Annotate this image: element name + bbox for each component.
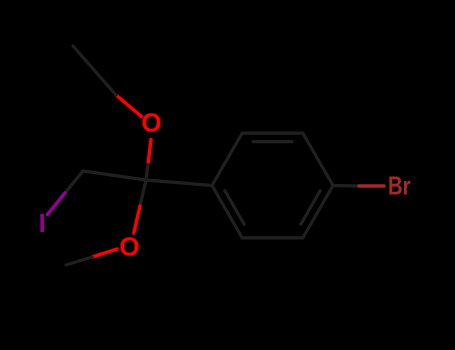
bond CH2 to I carbon half [65, 171, 83, 193]
benzene double bond top [253, 140, 292, 143]
bond ring to Br carbon half [333, 184, 359, 188]
bond ring to Br bromine half [359, 184, 384, 187]
bond C1 to CH2 [83, 171, 146, 180]
svg-text:I: I [39, 208, 46, 238]
bond CH2 to I iodine half [48, 193, 66, 215]
bond O2 to methyl carbon half [66, 257, 92, 265]
bond C1 to O1 carbon half [146, 162, 148, 180]
bond C1(acetal) to ring [146, 180, 212, 186]
bond C1 to O1 oxygen half [148, 140, 151, 163]
benzene double bond lower-right [301, 191, 320, 225]
svg-text:O: O [119, 232, 139, 262]
bond O2 to methyl red half [92, 249, 117, 257]
benzene ring outline [212, 133, 333, 238]
benzene double bond lower-left [225, 191, 244, 225]
bond C1 to O2 oxygen half [134, 206, 140, 233]
bond O1 to methyl carbon half [73, 46, 116, 95]
svg-text:O: O [141, 108, 161, 138]
bond C1 to O2 carbon half [140, 180, 146, 206]
svg-text:Br: Br [388, 171, 411, 201]
bond O1 to methyl red half [116, 95, 142, 117]
